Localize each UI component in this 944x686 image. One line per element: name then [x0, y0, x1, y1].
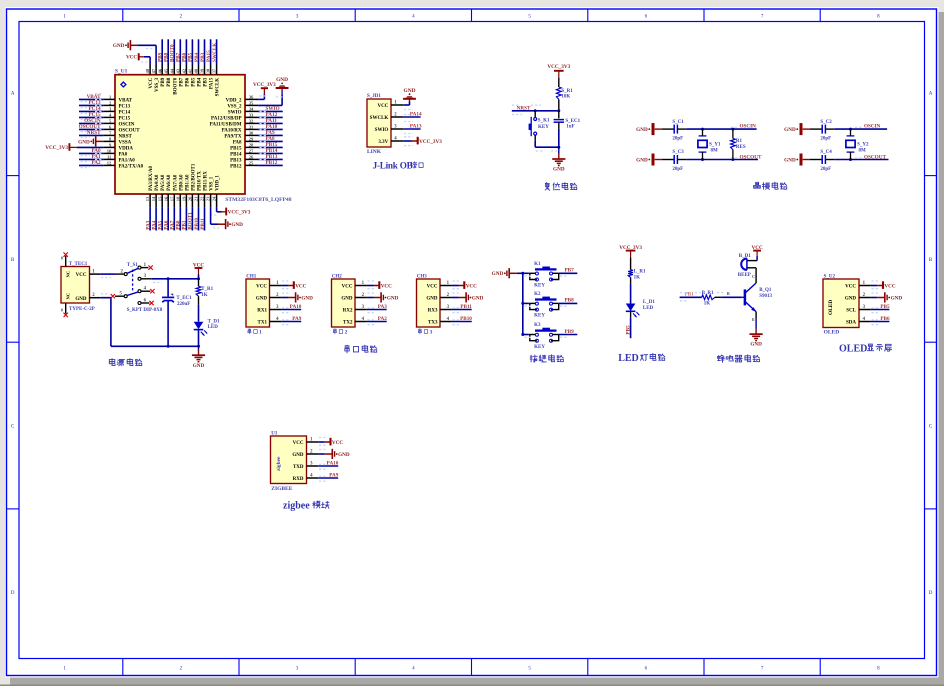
svg-text:PB6: PB6: [880, 316, 890, 322]
MCU left pin 12 wire: [79, 160, 115, 168]
svg-text:VCC: VCC: [342, 284, 353, 289]
svg-text:VCC_3V3: VCC_3V3: [228, 210, 251, 216]
MCU left pin 9 wire: [103, 146, 115, 148]
svg-text:NRST: NRST: [87, 130, 101, 136]
svg-text:K3: K3: [534, 323, 541, 328]
svg-text:PA4/A0: PA4/A0: [155, 174, 160, 191]
svg-text:LED: LED: [618, 353, 639, 364]
power VCC_3V3 LED circuit: [619, 245, 642, 270]
svg-text:TX2: TX2: [343, 320, 353, 325]
svg-text:PA2: PA2: [91, 160, 101, 166]
power VCC_3V3 reset: [547, 64, 570, 87]
MCU bottom pin 21 wire: [194, 194, 200, 231]
svg-text:VCC: VCC: [845, 284, 856, 289]
svg-text:SWCLK: SWCLK: [212, 43, 218, 62]
label J-Link OB interface title: [373, 161, 424, 171]
display S_U2 OLED body: [823, 275, 859, 336]
svg-text:VDD_2: VDD_2: [226, 98, 242, 103]
svg-text:NRST: NRST: [517, 105, 531, 111]
wire CH2 pin4 net PA2: [367, 316, 388, 325]
MCU right pin 29 wire: [245, 136, 283, 143]
svg-text:PB0: PB0: [176, 220, 182, 230]
wire OSCOUT: [686, 154, 762, 161]
svg-text:S_C2: S_C2: [820, 120, 832, 125]
svg-text:A: A: [11, 91, 15, 96]
svg-text:RX1: RX1: [257, 308, 267, 313]
MCU right pin 35 wire: [245, 104, 258, 106]
pushbutton S_K1 KEY: [529, 111, 550, 147]
wire zigbee pin3 net PA10: [318, 461, 339, 470]
label serial circuit title: [345, 345, 377, 353]
svg-text:VCC: VCC: [332, 440, 343, 446]
svg-text:PC15: PC15: [119, 116, 131, 121]
MCU bottom pin 19 wire: [182, 194, 188, 231]
svg-text:K2: K2: [534, 292, 541, 297]
MCU right pin 36 wire: [245, 98, 258, 100]
svg-text:PB1/A0: PB1/A0: [185, 174, 190, 191]
capacitor T_EC1 220uF: [162, 279, 192, 347]
svg-text:PC13: PC13: [119, 104, 131, 109]
MCU top pin 38 wire: [206, 39, 212, 74]
svg-text:C: C: [752, 274, 755, 279]
svg-text:TXD: TXD: [293, 465, 304, 470]
svg-text:20pF: 20pF: [820, 167, 831, 172]
connector CH3 pins: [426, 281, 451, 325]
svg-text:T_EC1: T_EC1: [176, 296, 192, 301]
MCU bottom pin 17 wire: [170, 194, 176, 231]
svg-text:T_S1: T_S1: [127, 263, 139, 268]
svg-text:BEEP: BEEP: [738, 273, 751, 278]
power VCC at S_U2 pin1: [871, 281, 896, 289]
svg-text:BOOT0: BOOT0: [173, 77, 178, 94]
svg-text:GND: GND: [231, 222, 243, 228]
ground at CH1 pin2: [281, 292, 313, 302]
svg-text:PB5: PB5: [188, 52, 194, 62]
MCU bottom pin 13 wire: [145, 194, 151, 231]
svg-text:1K: 1K: [634, 275, 641, 280]
capacitor S_C2 20pF: [810, 120, 835, 142]
MCU right pin 27 wire: [245, 148, 283, 155]
svg-text:SWIO: SWIO: [228, 110, 242, 115]
svg-text:SWCLK: SWCLK: [216, 78, 221, 97]
svg-text:S_JD1: S_JD1: [367, 94, 381, 99]
svg-text:PB14: PB14: [230, 152, 242, 157]
svg-text:VCC: VCC: [76, 273, 87, 278]
wire power bottom rail: [111, 345, 200, 348]
module U1 pins: [292, 438, 318, 482]
svg-text:GND: GND: [256, 296, 268, 301]
svg-text:B_D1: B_D1: [739, 254, 751, 259]
ground at CH2 pin2: [367, 292, 399, 302]
power VCC power-circuit: [193, 263, 204, 279]
svg-text:1uF: 1uF: [566, 124, 574, 129]
wire switch output: [151, 277, 200, 282]
svg-text:T_D1: T_D1: [208, 320, 220, 325]
svg-text:20pF: 20pF: [820, 137, 831, 142]
svg-text:L_R1: L_R1: [634, 270, 646, 275]
module U1 zigbee body: [271, 432, 307, 492]
svg-text:KEY: KEY: [534, 314, 545, 319]
LED T_D1 power: [194, 320, 220, 347]
ground buzzer: [750, 312, 763, 348]
connector S_JD1 J-Link OB body: [367, 94, 391, 155]
svg-text:SDA: SDA: [846, 320, 856, 325]
svg-text:VCC: VCC: [126, 55, 137, 61]
svg-text:PB9: PB9: [565, 329, 575, 335]
MCU left pin 2 wire: [79, 100, 115, 108]
svg-text:K1: K1: [534, 262, 541, 267]
svg-text:VCC: VCC: [381, 283, 392, 289]
svg-text:PA10: PA10: [327, 461, 339, 467]
svg-text:220uF: 220uF: [177, 302, 190, 307]
svg-text:SWIO: SWIO: [375, 128, 389, 133]
MCU S_U1 STM32F103C8T6_LQFP48 body: [115, 69, 292, 203]
svg-text:OSCOUT: OSCOUT: [119, 128, 141, 133]
ground reset: [552, 147, 565, 172]
wire reset bottom rail: [535, 146, 560, 151]
MCU pin names and numbers: [107, 68, 254, 201]
svg-text:GND: GND: [341, 296, 353, 301]
svg-text:OLED: OLED: [828, 300, 834, 315]
svg-text:PB5: PB5: [625, 325, 631, 335]
MCU top pin 39 wire: [200, 39, 206, 74]
wire button bus: [517, 272, 525, 336]
T_TEC1 unused top pin: [61, 252, 68, 266]
svg-text:OSCOUT: OSCOUT: [740, 154, 762, 160]
T_TEC1 pin 2 GND wire: [75, 293, 111, 346]
svg-text:PB4: PB4: [198, 77, 203, 86]
svg-text:GND: GND: [78, 139, 90, 145]
resistor S_R1 10K: [556, 87, 573, 111]
svg-text:ZIGBEE: ZIGBEE: [271, 486, 292, 492]
wire OSCOUT: [834, 154, 888, 161]
svg-text:VCC_3V3: VCC_3V3: [253, 82, 276, 88]
wire CH2 pin3 net PA3: [367, 304, 388, 313]
svg-text:GND: GND: [784, 127, 796, 133]
svg-text:STM32F103C8T6_LQFP48: STM32F103C8T6_LQFP48: [225, 197, 291, 203]
connector T_TEC1 TYPE-C-2P body: [61, 262, 95, 312]
capacitor S_C4 20pF: [810, 150, 835, 172]
svg-text:GND: GND: [784, 158, 796, 164]
svg-text:PA13: PA13: [410, 123, 422, 129]
svg-text:LINK: LINK: [367, 149, 382, 155]
svg-text:NRST: NRST: [119, 134, 133, 139]
svg-text:zigbee: zigbee: [276, 456, 282, 471]
wire OSCIN: [686, 124, 756, 131]
svg-text:PB9: PB9: [161, 77, 166, 86]
connector CH3 body: [417, 275, 441, 336]
svg-text:PA0: PA0: [119, 152, 128, 157]
svg-text:CH3: CH3: [417, 275, 428, 280]
svg-text:CH2: CH2: [332, 275, 343, 280]
connector CH2 body: [332, 275, 356, 336]
svg-text:PA2: PA2: [378, 316, 388, 322]
svg-text:S_R1: S_R1: [561, 89, 573, 94]
svg-text:PB11: PB11: [200, 218, 206, 230]
ground at MCU pin 47: [113, 40, 156, 64]
svg-text:GND: GND: [553, 167, 565, 173]
power VCC at MCU pin 48: [126, 53, 150, 64]
svg-text:PC14: PC14: [119, 110, 131, 115]
MCU bottom pin 20 wire: [188, 194, 194, 231]
svg-text:S_K1: S_K1: [538, 119, 550, 124]
label crystal circuit title: [754, 182, 787, 189]
svg-text:PB0/A0: PB0/A0: [179, 174, 184, 191]
svg-text:VCC: VCC: [466, 283, 477, 289]
svg-text:B_R1: B_R1: [702, 291, 714, 296]
svg-text:PB8: PB8: [565, 298, 575, 304]
resistor T_R1 1K: [196, 279, 214, 322]
display S_U2 pins: [845, 281, 871, 325]
svg-text:VCC: VCC: [149, 77, 154, 88]
ground crystal top: [784, 123, 810, 135]
MCU right pin 26 wire: [245, 154, 283, 161]
MCU right pin 32 wire: [245, 118, 283, 125]
svg-text:KEY: KEY: [538, 125, 549, 130]
svg-text:PB8: PB8: [164, 52, 170, 62]
ground at S_U2 pin2: [871, 292, 903, 302]
svg-text:B: B: [727, 291, 730, 296]
svg-text:GND: GND: [750, 342, 762, 348]
ground at CH3 pin2: [452, 292, 484, 302]
pushbutton K3 KEY: [523, 323, 559, 350]
svg-text:PA10: PA10: [290, 304, 302, 310]
wire LED net PB5: [625, 318, 631, 338]
svg-text:zigbee: zigbee: [283, 500, 310, 511]
svg-text:2: 2: [345, 330, 348, 336]
svg-text:J-Link OB: J-Link OB: [373, 161, 413, 171]
MCU bottom pin 14 wire: [151, 194, 157, 231]
svg-text:PA11/USB/DM: PA11/USB/DM: [210, 122, 242, 127]
svg-text:S_EC1: S_EC1: [565, 119, 580, 124]
svg-text:PB15: PB15: [230, 146, 242, 151]
wire CH1 pin3 net PA10: [281, 304, 302, 313]
svg-text:PA9/TX: PA9/TX: [224, 134, 242, 139]
svg-text:1: 1: [259, 330, 262, 336]
svg-text:20pF: 20pF: [672, 137, 683, 142]
svg-text:S_U1: S_U1: [115, 69, 128, 75]
svg-text:SWCLK: SWCLK: [370, 116, 389, 121]
ground at MCU pin 35: [258, 77, 288, 105]
wire S_JD1 pin 2 net PA14: [403, 111, 422, 121]
svg-text:PB5: PB5: [191, 77, 196, 86]
label reset circuit title: [545, 183, 577, 191]
svg-text:PB5: PB5: [880, 304, 890, 310]
wire S_JD1 pin 3 net PA13: [403, 123, 422, 133]
svg-text:E: E: [752, 317, 755, 322]
svg-text:VDD_1: VDD_1: [216, 175, 221, 191]
svg-text:GND: GND: [891, 295, 903, 301]
svg-text:TYPE-C-2P: TYPE-C-2P: [69, 307, 95, 312]
capacitor S_C1 20pF: [662, 120, 687, 142]
svg-text:PB13: PB13: [230, 158, 242, 163]
svg-text:VCC: VCC: [884, 283, 895, 289]
svg-text:NC: NC: [66, 271, 71, 278]
ground buttons: [492, 268, 517, 278]
LED L_D1: [626, 300, 656, 318]
svg-text:VDDA: VDDA: [119, 146, 134, 151]
capacitor S_EC1 1uF: [554, 111, 581, 147]
svg-text:BOOT1: BOOT1: [188, 212, 194, 230]
svg-text:PA5/A0: PA5/A0: [161, 174, 166, 191]
svg-text:GND: GND: [301, 295, 313, 301]
svg-text:S_C3: S_C3: [672, 150, 684, 155]
svg-text:U1: U1: [271, 432, 278, 437]
MCU bottom pin 15 wire: [158, 194, 164, 231]
svg-text:VCC: VCC: [256, 284, 267, 289]
svg-text:PB10: PB10: [460, 316, 472, 322]
svg-text:VCC_3V3: VCC_3V3: [547, 64, 570, 70]
svg-text:PB7: PB7: [179, 77, 184, 86]
MCU left pin 7 wire: [79, 130, 115, 138]
svg-text:OSCIN: OSCIN: [864, 124, 881, 130]
svg-text:S_Y2: S_Y2: [857, 142, 869, 147]
T_TEC1 pin 1 VCC wire: [76, 269, 115, 278]
wire CH1 pin4 net PA9: [281, 316, 302, 325]
svg-text:TX1: TX1: [258, 320, 268, 325]
svg-text:GND: GND: [636, 127, 648, 133]
MCU bottom pin 22 wire: [200, 194, 206, 231]
svg-text:VSSA: VSSA: [119, 140, 132, 145]
T_TEC1 unused bottom pin: [61, 303, 68, 317]
svg-text:PA6: PA6: [164, 220, 170, 230]
svg-text:RES: RES: [736, 145, 746, 150]
svg-text:PB11: PB11: [460, 304, 472, 310]
svg-text:GND: GND: [292, 453, 304, 458]
ground power circuit: [192, 346, 205, 369]
svg-text:GND: GND: [492, 271, 504, 277]
svg-text:PB3: PB3: [204, 77, 209, 86]
ground crystal bottom: [636, 154, 662, 166]
svg-text:GND: GND: [472, 295, 484, 301]
MCU left pin 5 wire: [79, 118, 115, 126]
svg-text:PB3: PB3: [200, 52, 206, 62]
svg-text:GND: GND: [75, 297, 87, 302]
svg-text:SCL: SCL: [846, 308, 856, 313]
svg-text:T_TEC1: T_TEC1: [69, 262, 88, 267]
MCU top pin 37 wire: [212, 39, 218, 74]
svg-text:PB10/TX: PB10/TX: [198, 171, 203, 191]
wire OSCIN: [834, 124, 887, 131]
svg-text:RX3: RX3: [428, 308, 438, 313]
MCU right pin 25 wire: [245, 160, 283, 167]
wire CH3 pin4 net PB10: [452, 316, 472, 325]
power VCC at CH1 pin1: [281, 281, 306, 289]
svg-text:D: D: [929, 591, 933, 596]
resistor L_R1 1K: [628, 270, 646, 304]
MCU left pin 10 wire: [79, 148, 115, 156]
label zigbee module title: [283, 500, 329, 511]
svg-text:OLED: OLED: [839, 343, 867, 354]
power VCC at CH3 pin1: [452, 281, 477, 289]
power VCC_3V3 at MCU pin 9: [45, 143, 103, 151]
svg-text:PA15: PA15: [210, 77, 215, 89]
svg-text:KEY: KEY: [534, 284, 545, 289]
MCU left pin 11 wire: [79, 154, 115, 162]
svg-text:L_D1: L_D1: [643, 300, 655, 305]
capacitor S_C3 20pF: [662, 150, 687, 172]
svg-text:VSS_2: VSS_2: [227, 104, 242, 109]
svg-text:VCC: VCC: [295, 283, 306, 289]
svg-text:GND: GND: [636, 158, 648, 164]
svg-text:3.3V: 3.3V: [378, 140, 388, 145]
MCU left pin 8 wire: [103, 140, 115, 142]
MCU right pin 28 wire: [245, 142, 283, 149]
MCU top pin 41 wire: [188, 39, 194, 74]
svg-text:VBAT: VBAT: [119, 98, 133, 103]
svg-text:PB8: PB8: [167, 77, 172, 86]
ground crystal bottom: [784, 154, 810, 166]
transistor B_Q1 S9013: [742, 268, 773, 322]
svg-text:GND: GND: [404, 88, 416, 94]
svg-text:PB11/RX: PB11/RX: [204, 171, 209, 191]
svg-text:S_C1: S_C1: [672, 120, 684, 125]
svg-text:PB6: PB6: [185, 77, 190, 86]
MCU top pin 42 wire: [182, 39, 188, 74]
svg-text:D: D: [11, 591, 15, 596]
svg-text:S9013: S9013: [759, 294, 772, 299]
svg-text:GND: GND: [426, 296, 438, 301]
MCU top pin 40 wire: [194, 39, 200, 74]
wire key K1 net PB7: [525, 268, 578, 277]
svg-text:PB7: PB7: [176, 52, 182, 62]
svg-text:LED: LED: [208, 325, 219, 330]
svg-text:3: 3: [430, 330, 433, 336]
svg-text:PA3/RX/A0: PA3/RX/A0: [149, 165, 154, 190]
svg-text:PA10/RX: PA10/RX: [222, 128, 242, 133]
svg-text:VCC_3V3: VCC_3V3: [419, 139, 442, 145]
MCU top pin 46 wire: [158, 39, 164, 74]
MCU left pin 4 wire: [79, 112, 115, 120]
ground at MCU pin 23: [211, 207, 244, 229]
svg-text:PA9: PA9: [292, 316, 302, 322]
svg-text:PA2/TX/A0: PA2/TX/A0: [119, 164, 144, 169]
wire net NRST: [512, 105, 561, 114]
buzzer B_D1 BEEP: [738, 254, 757, 278]
connector S_JD1 pins: [370, 101, 404, 145]
svg-text:GND: GND: [845, 296, 857, 301]
svg-text:8M: 8M: [859, 149, 867, 154]
switch T_S1 S_KPT DIP-8X8: [111, 263, 163, 313]
svg-text:B_Q1: B_Q1: [759, 288, 772, 293]
wire key K3 net PB9: [525, 329, 578, 338]
svg-text:CH1: CH1: [246, 275, 256, 280]
resistor R1 RES: [731, 129, 746, 159]
svg-text:R1: R1: [736, 139, 743, 144]
svg-text:OSCOUT: OSCOUT: [864, 154, 886, 160]
svg-text:PB12: PB12: [230, 164, 242, 169]
label power circuit title: [109, 359, 141, 366]
power VCC at CH2 pin1: [367, 281, 392, 289]
svg-text:PA8: PA8: [233, 140, 242, 145]
MCU bottom pin 24 wire: [216, 194, 218, 207]
svg-text:GND: GND: [113, 43, 125, 49]
svg-text:PA3: PA3: [378, 304, 388, 310]
label button circuit title: [530, 355, 563, 362]
svg-text:PA7/A0: PA7/A0: [173, 174, 178, 191]
MCU top pin 47 wire: [155, 65, 157, 75]
ground at MCU pin 8: [78, 136, 103, 146]
MCU right pin 31 wire: [245, 124, 283, 131]
power VCC buzzer: [751, 245, 762, 260]
svg-text:VCC: VCC: [293, 441, 304, 446]
wire zigbee pin4 net PA9: [318, 473, 339, 482]
svg-text:PA4: PA4: [151, 220, 157, 230]
connector CH1 pins: [256, 281, 281, 325]
svg-text:KEY: KEY: [534, 345, 545, 350]
svg-text:OSCIN: OSCIN: [740, 124, 757, 130]
MCU right pin 33 wire: [245, 112, 283, 119]
